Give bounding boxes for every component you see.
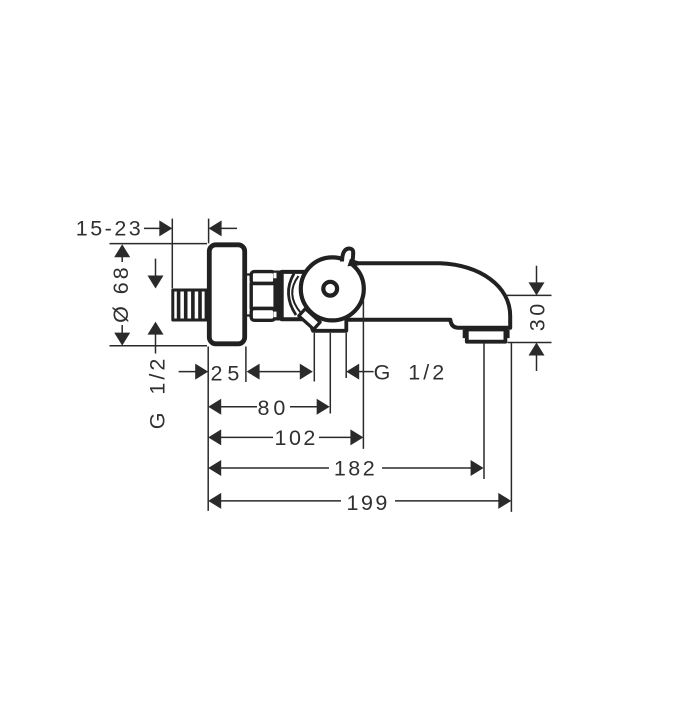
svg-text:102: 102 [275, 426, 318, 450]
svg-text:25: 25 [210, 362, 244, 386]
svg-text:G 1/2: G 1/2 [145, 356, 169, 430]
svg-text:G 1/2: G 1/2 [374, 360, 448, 384]
svg-text:30: 30 [526, 300, 550, 331]
svg-text:Ø 68: Ø 68 [109, 264, 133, 323]
svg-text:199: 199 [347, 491, 390, 515]
svg-text:15-23: 15-23 [76, 217, 144, 241]
svg-text:182: 182 [334, 457, 377, 481]
svg-text:80: 80 [257, 396, 289, 420]
